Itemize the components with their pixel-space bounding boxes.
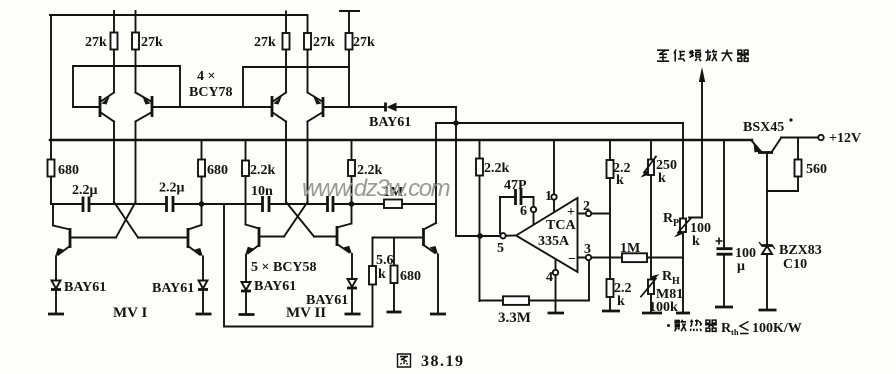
svg-text:+12V: +12V <box>829 131 861 146</box>
transistor MV II left BCY58 <box>245 225 284 283</box>
svg-text:3: 3 <box>584 242 591 257</box>
note heatsink (Chinese) <box>667 320 802 338</box>
terminal +12V <box>818 131 861 146</box>
potentiometer Rp 100k <box>663 123 711 313</box>
op-amp pin 3 input line <box>578 242 684 260</box>
resistor 680 (interface base-gnd) <box>387 238 422 313</box>
diode BAY61 (MV II left) <box>239 279 297 315</box>
resistor 3.3M feedback <box>480 260 590 326</box>
node dot MV II right collector <box>349 201 355 207</box>
potentiometer 250k (trim) <box>641 140 678 313</box>
wire BSX45 base column <box>766 153 768 246</box>
svg-text:1M: 1M <box>620 241 640 256</box>
label 5 x BCY58 <box>251 260 317 275</box>
svg-text:27k: 27k <box>141 35 163 50</box>
svg-text:BSX45: BSX45 <box>743 120 784 135</box>
resistor R2 27k <box>132 15 163 93</box>
op-amp pin 6 <box>520 204 536 224</box>
wire Q1 collector column <box>113 122 115 203</box>
resistor 560 <box>767 138 827 192</box>
transistor MV I left BCY58 <box>51 204 116 281</box>
svg-text:27k: 27k <box>313 35 335 50</box>
wire box of BCY78 group 1 <box>73 66 180 107</box>
svg-text:3.3M: 3.3M <box>498 310 531 326</box>
svg-text:5 × BCY58: 5 × BCY58 <box>251 260 317 275</box>
watermark www.dz3w.com <box>302 175 450 202</box>
svg-text:1: 1 <box>545 189 552 204</box>
wire Rp wiper to output line <box>689 75 702 218</box>
resistor R4 27k <box>304 15 335 93</box>
svg-text:th: th <box>731 327 739 337</box>
svg-text:100K/W: 100K/W <box>752 321 802 336</box>
capacitor 2.2u (MV I left) <box>72 183 98 212</box>
transistor Q1 BCY78 (group1 left) <box>100 93 114 122</box>
svg-text:BCY78: BCY78 <box>189 85 233 100</box>
svg-text:100k: 100k <box>649 300 678 315</box>
transistor MV II right BCY58 <box>314 224 352 280</box>
wire cross-coupling X of MV II <box>284 202 314 237</box>
svg-text:335A: 335A <box>538 234 570 249</box>
op-amp pin 4 with ground <box>546 259 564 313</box>
svg-text:k: k <box>658 171 666 186</box>
svg-text:2.2μ: 2.2μ <box>72 183 98 198</box>
transistor MV I right BCY58 <box>138 225 203 281</box>
svg-text:4: 4 <box>546 270 553 285</box>
transistor interface Q (to LF output) <box>373 223 447 314</box>
svg-text:27k: 27k <box>353 35 375 50</box>
svg-text:38.19: 38.19 <box>421 353 465 370</box>
transistor Q2 BCY78 (group1 right) <box>136 93 153 122</box>
svg-text:www.dz3w.com: www.dz3w.com <box>302 175 450 202</box>
resistor 1M (MV II to comparator) <box>383 185 403 208</box>
wire Q3 collector column <box>285 122 287 203</box>
svg-text:MV I: MV I <box>113 305 147 321</box>
capacitor 100u electrolytic <box>715 140 756 307</box>
wire Q2 collector column <box>135 122 137 203</box>
svg-text:BZX83: BZX83 <box>779 243 822 258</box>
svg-text:5: 5 <box>497 241 504 256</box>
svg-text:k: k <box>616 173 624 188</box>
arrow to LF amplifier <box>699 67 705 82</box>
op-amp U1 TCA335A triangle <box>516 198 578 272</box>
label MV I <box>113 305 147 321</box>
svg-text:2.2k: 2.2k <box>250 163 276 178</box>
svg-text:27k: 27k <box>85 35 107 50</box>
wire astable coupling row y204 <box>51 203 436 205</box>
wire cross-coupling X of MV I <box>114 202 138 238</box>
svg-text:BAY61: BAY61 <box>254 279 296 294</box>
diode BAY61 (MV I left) <box>48 280 106 314</box>
svg-text:680: 680 <box>58 163 79 178</box>
svg-text:47P: 47P <box>504 178 527 193</box>
svg-text:+: + <box>567 205 575 220</box>
node junction dot at 456,123 <box>453 120 458 125</box>
diode zener BZX83/C10 <box>759 243 822 311</box>
resistor 680 (MV I left load) <box>48 160 80 179</box>
svg-text:560: 560 <box>806 162 827 177</box>
svg-text:2.2μ: 2.2μ <box>159 181 185 196</box>
svg-text:BAY61: BAY61 <box>64 280 106 295</box>
svg-text:−: − <box>568 252 576 267</box>
resistor 680 (MV I right load) <box>198 140 228 225</box>
resistor 5.6k (interface base) <box>369 238 394 327</box>
resistor R3 27k <box>254 15 290 93</box>
capacitor 2.2u (MV I right) <box>159 181 185 213</box>
wire left supply column (top rail to MV I) <box>50 15 52 204</box>
wire BAY61 output down to pin5 node <box>456 107 480 236</box>
svg-text:2.2k: 2.2k <box>484 161 510 176</box>
wire base G1 left <box>73 106 100 108</box>
resistor R1 27k <box>85 15 118 93</box>
resistor 1M (pin3 to Rp) <box>620 241 647 262</box>
wire box of BCY78 group 2 <box>243 67 349 107</box>
diode BAY61 (coupling, top) <box>323 103 456 131</box>
capacitor 47P (pin5 to pin6) <box>500 178 534 233</box>
svg-text:MV II: MV II <box>286 305 326 321</box>
wire base G1-right to G2-left <box>152 106 272 108</box>
capacitor 10n (MV II left) <box>251 184 273 212</box>
svg-text:P: P <box>673 218 679 229</box>
thermistor RH M81 100k <box>641 269 683 315</box>
svg-text:k: k <box>692 234 700 249</box>
wire junction ticks on top rail <box>114 11 286 15</box>
wire top supply rail <box>50 14 307 16</box>
resistor 2.2k (MV II right load) <box>348 140 383 224</box>
op-amp pin 1 <box>545 140 557 212</box>
capacitor 10n (MV II right) <box>328 196 334 212</box>
op-amp pin 2 output <box>578 199 611 216</box>
svg-text:k: k <box>617 294 625 309</box>
svg-text:μ: μ <box>737 259 745 274</box>
label 4x BCY78 <box>189 69 233 100</box>
resistor 2.2k (pin3 lower) <box>602 279 632 311</box>
svg-text:6: 6 <box>520 204 527 219</box>
diode BAY61 (MV II right) <box>306 279 361 314</box>
resistor 2.2k (pin2 load) <box>607 140 631 311</box>
svg-text:C10: C10 <box>783 257 807 272</box>
wire collector line y123 to Rp <box>436 122 683 124</box>
svg-text:H: H <box>672 276 680 287</box>
diode BAY61 (MV I right) <box>152 281 212 315</box>
resistor R5 27k with supply stub <box>340 11 375 107</box>
op-amp pin 5 <box>480 233 516 256</box>
transistor BSX45 series regulator <box>743 118 818 152</box>
label MV II <box>286 305 326 321</box>
resistor 2.2k (op-amp input, from rail) <box>476 140 510 301</box>
wire main +V rail <box>50 139 752 142</box>
svg-text:BAY61: BAY61 <box>369 115 411 130</box>
node dot MV I right collector <box>199 201 205 207</box>
caption figure 38.19 <box>398 353 465 370</box>
transistor Q4 BCY78 (group2 right) <box>308 93 324 122</box>
svg-text:BAY61: BAY61 <box>152 281 194 296</box>
transistor Q3 BCY78 (group2 left) <box>272 93 286 122</box>
svg-text:2: 2 <box>583 199 590 214</box>
wire collector drop of interface transistor <box>435 123 437 223</box>
svg-text:680: 680 <box>400 269 421 284</box>
svg-text:680: 680 <box>207 163 228 178</box>
wire Q4 collector column <box>307 122 309 203</box>
svg-text:27k: 27k <box>254 35 276 50</box>
resistor 2.2k (MV II left load) <box>242 140 276 225</box>
node dot pin5 <box>477 233 483 239</box>
wire feedback loop from y204 down to 5.6k <box>224 204 373 327</box>
svg-text:10n: 10n <box>251 184 273 199</box>
svg-text:k: k <box>378 267 386 282</box>
label to-LF-amplifier (Chinese) <box>657 50 749 62</box>
svg-text:4 ×: 4 × <box>197 69 215 84</box>
svg-text:TCA: TCA <box>546 218 576 233</box>
